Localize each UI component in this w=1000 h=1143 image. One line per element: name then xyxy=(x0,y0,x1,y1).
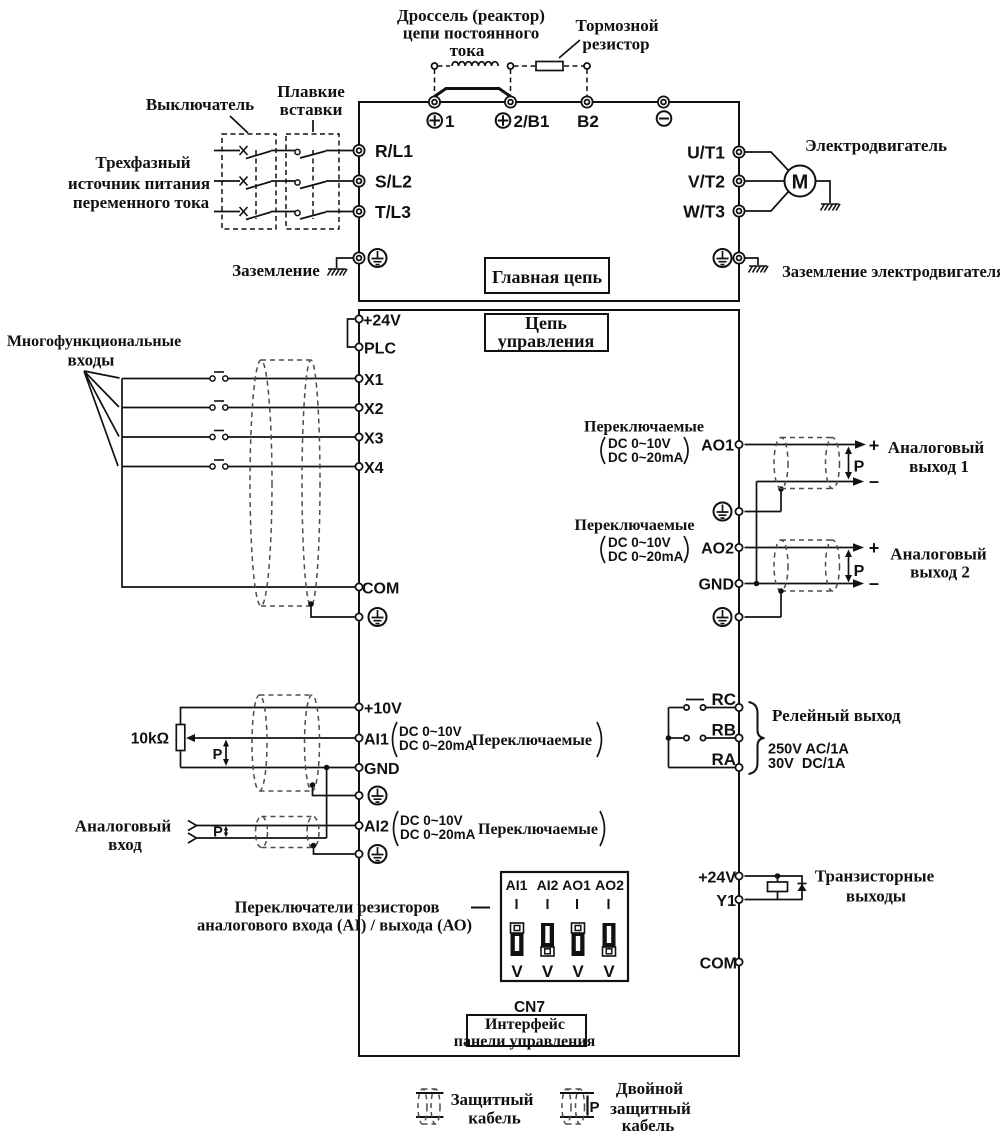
svg-text:AI2: AI2 xyxy=(364,819,389,836)
svg-text:CN7: CN7 xyxy=(514,999,545,1016)
svg-text:RB: RB xyxy=(711,721,736,740)
svg-text:X3: X3 xyxy=(364,431,384,448)
svg-text:V: V xyxy=(572,962,584,981)
svg-text:AI1: AI1 xyxy=(506,877,528,893)
svg-text:W/T3: W/T3 xyxy=(683,202,725,222)
svg-text:M: M xyxy=(792,172,809,194)
svg-text:DC 0~10V: DC 0~10V xyxy=(608,436,671,451)
svg-text:выход 1: выход 1 xyxy=(909,457,969,476)
svg-text:Переключаемые: Переключаемые xyxy=(472,732,592,749)
svg-text:Электродвигатель: Электродвигатель xyxy=(805,136,947,155)
svg-text:Заземление: Заземление xyxy=(232,261,320,280)
svg-text:10kΩ: 10kΩ xyxy=(131,731,169,748)
svg-text:кабель: кабель xyxy=(468,1109,520,1128)
svg-text:Аналоговый: Аналоговый xyxy=(888,438,985,457)
svg-text:входы: входы xyxy=(68,351,115,370)
svg-text:Защитный: Защитный xyxy=(451,1090,534,1109)
svg-text:Переключаемые: Переключаемые xyxy=(584,419,704,436)
svg-text:Транзисторные: Транзисторные xyxy=(815,867,935,886)
svg-text:+: + xyxy=(869,436,880,456)
svg-text:вставки: вставки xyxy=(280,100,343,119)
svg-text:Плавкие: Плавкие xyxy=(277,82,345,101)
svg-text:AO2: AO2 xyxy=(701,541,734,558)
svg-text:источник питания: источник питания xyxy=(68,174,210,193)
svg-text:X1: X1 xyxy=(364,372,384,389)
svg-text:Релейный выход: Релейный выход xyxy=(772,706,901,725)
svg-text:B2: B2 xyxy=(577,112,599,131)
svg-text:AO2: AO2 xyxy=(595,877,624,893)
svg-text:–: – xyxy=(869,573,879,593)
svg-text:S/L2: S/L2 xyxy=(375,172,412,192)
svg-text:DC 0~20mA: DC 0~20mA xyxy=(608,549,684,564)
svg-text:RC: RC xyxy=(711,690,736,709)
svg-text:выход 2: выход 2 xyxy=(910,563,970,582)
svg-text:управления: управления xyxy=(498,331,595,351)
svg-text:резистор: резистор xyxy=(582,35,649,54)
svg-text:DC 0~10V: DC 0~10V xyxy=(399,724,462,739)
svg-text:V/T2: V/T2 xyxy=(688,172,725,192)
svg-text:DC 0~20mA: DC 0~20mA xyxy=(400,827,476,842)
svg-text:PLC: PLC xyxy=(364,341,396,358)
svg-text:+: + xyxy=(869,538,880,558)
svg-text:AO1: AO1 xyxy=(562,877,591,893)
svg-text:Главная цепь: Главная цепь xyxy=(492,267,603,287)
svg-text:DC 0~10V: DC 0~10V xyxy=(608,535,671,550)
svg-text:тока: тока xyxy=(450,41,485,60)
svg-text:Аналоговый: Аналоговый xyxy=(75,817,172,836)
svg-text:Выключатель: Выключатель xyxy=(146,95,254,114)
svg-text:V: V xyxy=(603,962,615,981)
svg-text:DC 0~20mA: DC 0~20mA xyxy=(399,738,475,753)
svg-text:COM: COM xyxy=(362,581,399,598)
svg-text:R/L1: R/L1 xyxy=(375,141,413,161)
svg-text:T/L3: T/L3 xyxy=(375,202,411,222)
svg-text:P: P xyxy=(213,825,223,841)
svg-text:P: P xyxy=(213,747,223,763)
svg-text:аналогового входа (AI) / выход: аналогового входа (AI) / выхода (АО) xyxy=(197,916,472,935)
svg-text:выходы: выходы xyxy=(846,887,906,906)
svg-text:+10V: +10V xyxy=(364,701,402,718)
svg-text:GND: GND xyxy=(364,761,400,778)
svg-text:X2: X2 xyxy=(364,401,384,418)
svg-text:Двойной: Двойной xyxy=(616,1079,683,1098)
svg-text:DC 0~20mA: DC 0~20mA xyxy=(608,450,684,465)
svg-text:Многофункциональные: Многофункциональные xyxy=(7,333,181,350)
svg-text:цепи постоянного: цепи постоянного xyxy=(403,24,539,43)
svg-text:V: V xyxy=(511,962,523,981)
svg-text:AI2: AI2 xyxy=(537,877,559,893)
svg-text:+24V: +24V xyxy=(363,313,401,330)
svg-text:вход: вход xyxy=(108,835,142,854)
svg-text:Трехфазный: Трехфазный xyxy=(95,153,190,172)
svg-text:U/T1: U/T1 xyxy=(687,143,725,163)
svg-text:P: P xyxy=(854,563,865,580)
svg-text:V: V xyxy=(542,962,554,981)
svg-text:AI1: AI1 xyxy=(364,732,389,749)
svg-text:Заземление электродвигателя: Заземление электродвигателя xyxy=(782,262,1000,281)
svg-text:GND: GND xyxy=(698,577,734,594)
svg-text:Тормозной: Тормозной xyxy=(575,16,658,35)
svg-text:панели управления: панели управления xyxy=(454,1033,596,1050)
svg-text:30V DC/1A: 30V DC/1A xyxy=(768,756,846,772)
svg-text:AO1: AO1 xyxy=(701,438,734,455)
svg-text:2/B1: 2/B1 xyxy=(514,112,550,131)
svg-text:Переключатели резисторов: Переключатели резисторов xyxy=(235,898,440,917)
svg-text:Цепь: Цепь xyxy=(525,313,567,333)
svg-text:COM: COM xyxy=(700,956,737,973)
svg-text:1: 1 xyxy=(445,112,454,131)
svg-text:P: P xyxy=(854,459,865,476)
svg-text:DC 0~10V: DC 0~10V xyxy=(400,813,463,828)
svg-text:+24V: +24V xyxy=(698,870,736,887)
svg-text:Интерфейс: Интерфейс xyxy=(485,1016,565,1033)
svg-text:X4: X4 xyxy=(364,460,384,477)
svg-text:кабель: кабель xyxy=(622,1116,674,1135)
svg-text:переменного тока: переменного тока xyxy=(73,193,210,212)
svg-text:P: P xyxy=(590,1099,600,1116)
svg-text:Аналоговый: Аналоговый xyxy=(890,545,987,564)
svg-text:Переключаемые: Переключаемые xyxy=(575,517,695,534)
svg-text:Переключаемые: Переключаемые xyxy=(478,821,598,838)
svg-text:Y1: Y1 xyxy=(716,893,736,910)
svg-text:RA: RA xyxy=(711,750,736,769)
svg-text:Дроссель (реактор): Дроссель (реактор) xyxy=(397,6,545,25)
svg-text:–: – xyxy=(869,471,879,491)
